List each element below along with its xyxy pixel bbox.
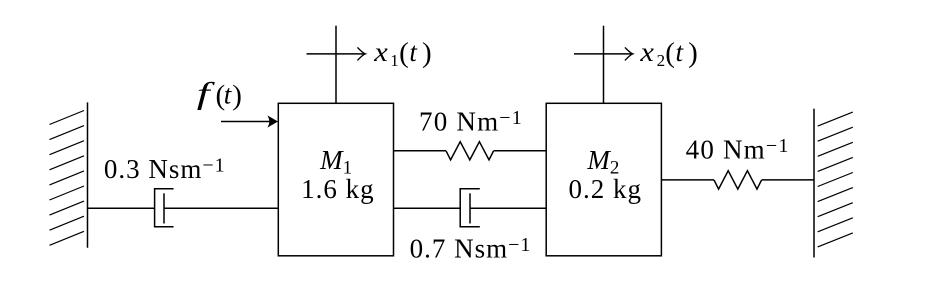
svg-text:f: f: [197, 76, 216, 111]
svg-text:0.7 Nsm−1: 0.7 Nsm−1: [410, 233, 532, 263]
svg-text:): ): [422, 37, 432, 69]
svg-text:2: 2: [657, 51, 666, 70]
svg-text:x: x: [639, 37, 654, 67]
svg-text:70 Nm−1: 70 Nm−1: [419, 107, 523, 137]
svg-text:x: x: [373, 37, 388, 67]
svg-text:): ): [688, 37, 698, 69]
svg-text:t: t: [676, 37, 685, 67]
svg-text:0.2 kg: 0.2 kg: [569, 174, 643, 204]
svg-text:1.6 kg: 1.6 kg: [301, 174, 375, 204]
svg-text:t: t: [409, 37, 418, 67]
svg-text:0.3 Nsm−1: 0.3 Nsm−1: [104, 154, 226, 184]
svg-text:40 Nm−1: 40 Nm−1: [686, 135, 790, 165]
svg-text:(: (: [399, 37, 409, 69]
svg-text:1: 1: [390, 51, 399, 70]
svg-text:(: (: [665, 37, 675, 69]
svg-text:): ): [232, 79, 242, 111]
